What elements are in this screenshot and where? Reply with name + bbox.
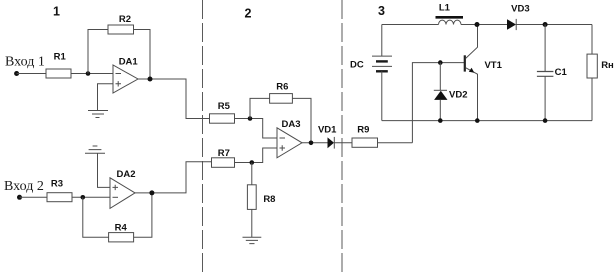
svg-text:R5: R5 xyxy=(218,101,231,112)
svg-text:C1: C1 xyxy=(555,67,568,78)
svg-text:VD1: VD1 xyxy=(318,125,337,136)
svg-text:Вход 1: Вход 1 xyxy=(5,54,45,69)
svg-text:Rн: Rн xyxy=(601,60,614,71)
svg-text:DC: DC xyxy=(350,60,364,71)
svg-text:VT1: VT1 xyxy=(484,60,502,71)
svg-text:R6: R6 xyxy=(276,82,288,93)
svg-text:R7: R7 xyxy=(218,148,230,159)
svg-text:VD3: VD3 xyxy=(511,4,529,15)
svg-text:3: 3 xyxy=(378,4,385,18)
svg-text:DA1: DA1 xyxy=(119,57,139,68)
svg-text:Вход 2: Вход 2 xyxy=(4,179,44,194)
svg-text:DA3: DA3 xyxy=(281,119,300,130)
svg-text:R8: R8 xyxy=(263,194,275,205)
svg-text:R2: R2 xyxy=(119,14,131,25)
svg-text:2: 2 xyxy=(245,6,252,20)
svg-text:VD2: VD2 xyxy=(449,89,467,100)
svg-text:DA2: DA2 xyxy=(116,169,135,180)
svg-text:1: 1 xyxy=(53,4,60,18)
svg-text:R3: R3 xyxy=(51,178,63,189)
svg-text:R1: R1 xyxy=(54,51,67,62)
svg-text:L1: L1 xyxy=(439,3,451,14)
svg-text:R9: R9 xyxy=(357,125,369,136)
svg-text:R4: R4 xyxy=(115,223,128,234)
